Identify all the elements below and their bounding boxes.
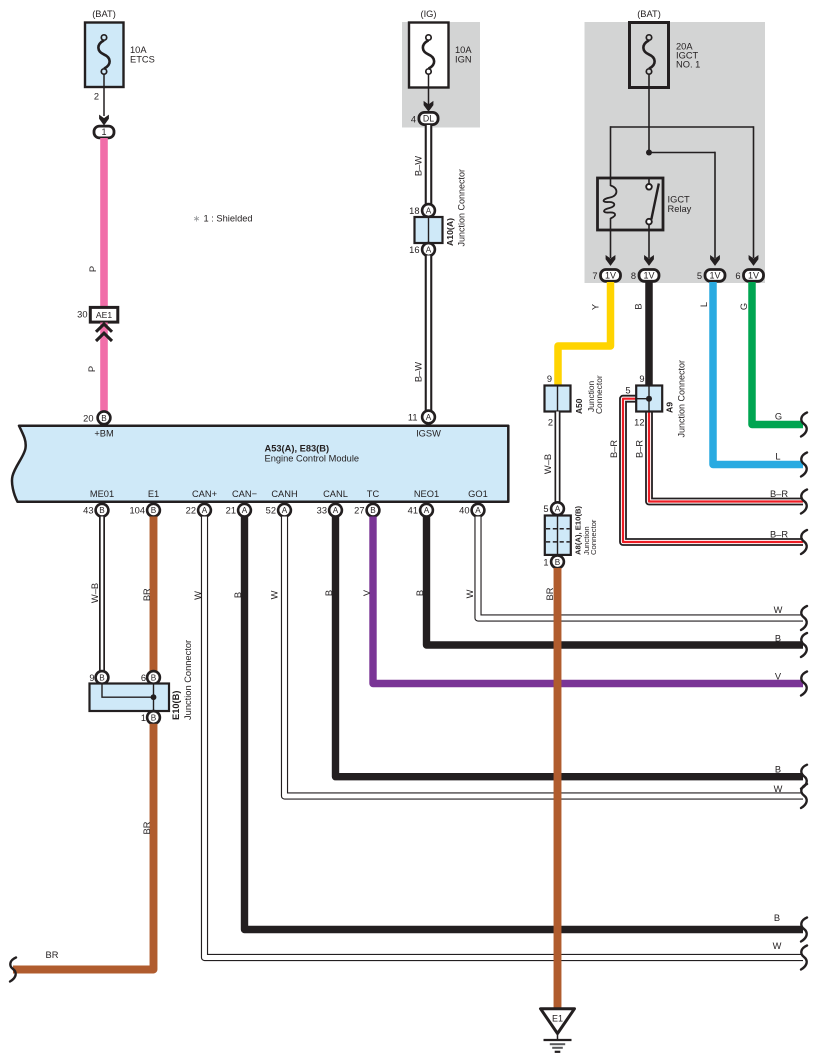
svg-text:6: 6 bbox=[141, 673, 146, 683]
connector pin 5 (1V) bbox=[697, 270, 725, 282]
wire color label B-R (right) bbox=[635, 440, 645, 458]
fuse ETCS pin 2 bbox=[94, 74, 104, 116]
svg-text:52: 52 bbox=[266, 506, 276, 516]
junction connector A50 pin 2 bbox=[548, 417, 553, 427]
svg-text:∗: ∗ bbox=[193, 213, 201, 223]
ECM pin 40(A) GO1 bbox=[459, 489, 488, 517]
svg-text:A: A bbox=[475, 506, 481, 515]
wire V: TC to right edge bbox=[373, 517, 803, 684]
wire label V (edge, TC) bbox=[775, 671, 782, 681]
node 1 ellipse bbox=[94, 126, 114, 138]
arrows into 1V pins bbox=[606, 255, 759, 266]
svg-text:B: B bbox=[775, 633, 781, 643]
svg-text:L: L bbox=[699, 302, 709, 307]
svg-text:(BAT): (BAT) bbox=[637, 9, 661, 19]
wire: node to pin 5 bbox=[649, 152, 715, 258]
svg-text:1V: 1V bbox=[643, 271, 654, 281]
svg-text:B: B bbox=[99, 674, 105, 683]
wire B: CAN- to right edge bbox=[245, 517, 804, 930]
svg-text:B–R: B–R bbox=[635, 440, 645, 458]
junction connector A9 labels bbox=[664, 360, 686, 438]
wire color label B (CAN-) bbox=[233, 592, 243, 598]
svg-text:A9: A9 bbox=[664, 402, 674, 413]
svg-text:2: 2 bbox=[548, 417, 553, 427]
junction connector A9 pin 5 bbox=[625, 386, 630, 396]
svg-text:E1: E1 bbox=[552, 1013, 563, 1023]
wire BR: E10 pin 1 to left edge bbox=[13, 724, 154, 970]
wire: fuse to junction node bbox=[648, 74, 650, 152]
wire break symbol B (CAN-) bbox=[801, 918, 807, 942]
ground E1 symbol bbox=[541, 1009, 575, 1052]
svg-text:Junction Connector: Junction Connector bbox=[183, 640, 193, 720]
wire label B-R (edge upper) bbox=[770, 489, 788, 499]
svg-text:V: V bbox=[362, 589, 372, 596]
wire color label W (GO1) bbox=[465, 589, 475, 598]
svg-text:BR: BR bbox=[46, 950, 59, 960]
svg-text:4: 4 bbox=[411, 114, 416, 124]
svg-text:Y: Y bbox=[591, 304, 601, 310]
junction node dot bbox=[646, 150, 652, 156]
svg-text:A: A bbox=[555, 505, 561, 514]
wire color label Y bbox=[591, 304, 601, 310]
svg-text:40: 40 bbox=[459, 506, 469, 516]
svg-text:A: A bbox=[426, 207, 432, 216]
svg-text:W: W bbox=[193, 591, 203, 600]
wire B black: pin 8 to A9 pin 9 bbox=[645, 282, 653, 386]
wire P pink: node 1 to connector AE1 bbox=[100, 138, 108, 308]
junction connector E10 pin 6(B) bbox=[141, 671, 160, 684]
junction connector A8 pin 1(B) bbox=[543, 555, 564, 568]
svg-text:+BM: +BM bbox=[94, 429, 113, 439]
wire color label G (vertical) bbox=[739, 303, 749, 310]
wire color label W (CANH) bbox=[270, 590, 280, 599]
svg-text:W: W bbox=[270, 590, 280, 599]
svg-text:G: G bbox=[739, 303, 749, 310]
ECM pin 33(A) CANL bbox=[317, 489, 348, 517]
ECM pin 52(A) CANH bbox=[266, 489, 298, 517]
svg-text:A53(A), E83(B): A53(A), E83(B) bbox=[265, 444, 330, 454]
wire W: CAN+ to right edge bbox=[205, 517, 804, 958]
ECM pin 104(B) E1 bbox=[129, 489, 159, 517]
svg-text:B: B bbox=[233, 592, 243, 598]
wire color label BR (vertical lower) bbox=[142, 821, 152, 834]
svg-text:CAN+: CAN+ bbox=[192, 489, 217, 499]
connector pin 8 (1V) bbox=[631, 270, 659, 282]
wire L blue: pin 5 to right edge bbox=[713, 282, 803, 465]
svg-text:V: V bbox=[775, 671, 782, 681]
wire color label B-W (upper) bbox=[414, 156, 424, 176]
relay output leads bbox=[611, 230, 650, 258]
svg-text:5: 5 bbox=[543, 504, 548, 514]
svg-text:W–B: W–B bbox=[543, 454, 553, 474]
fuse IGN pin 4 lead bbox=[428, 74, 430, 106]
svg-text:BR: BR bbox=[545, 587, 555, 600]
ECM pin 21(A) CAN− bbox=[226, 489, 257, 517]
svg-text:ETCS: ETCS bbox=[130, 55, 155, 65]
svg-text:(BAT): (BAT) bbox=[92, 9, 116, 19]
wire W: CANH to right edge bbox=[285, 517, 804, 797]
note *1 Shielded bbox=[193, 213, 253, 223]
wire B-R: A9 pin 12 to right edge (upper) bbox=[649, 412, 803, 502]
fuse ETCS 10A (BAT) bbox=[85, 9, 155, 87]
svg-text:A: A bbox=[202, 506, 208, 515]
svg-text:IGSW: IGSW bbox=[416, 429, 441, 439]
svg-text:NEO1: NEO1 bbox=[414, 489, 439, 499]
svg-text:1V: 1V bbox=[709, 271, 720, 281]
svg-text:W: W bbox=[465, 589, 475, 598]
svg-text:B: B bbox=[151, 674, 157, 683]
svg-text:6: 6 bbox=[735, 271, 740, 281]
svg-text:AE1: AE1 bbox=[96, 310, 112, 320]
wire color label B-W (lower) bbox=[414, 362, 424, 382]
fuse IGCT NO.1 20A (BAT) bbox=[630, 9, 701, 88]
svg-text:Connector: Connector bbox=[589, 519, 598, 555]
svg-text:27: 27 bbox=[354, 506, 364, 516]
svg-text:B–R: B–R bbox=[770, 489, 788, 499]
svg-text:1: 1 bbox=[543, 557, 548, 567]
junction connector A8 pin 5(A) bbox=[543, 502, 564, 515]
ECM A53(A), E83(B) Engine Control Module box bbox=[12, 426, 508, 502]
relay coil bbox=[604, 178, 617, 230]
wire label W (edge, CANH) bbox=[774, 784, 783, 794]
svg-text:G: G bbox=[775, 411, 782, 421]
svg-text:P: P bbox=[87, 366, 97, 372]
wire label W (edge, CAN+) bbox=[773, 941, 782, 951]
svg-text:1: 1 bbox=[141, 713, 146, 723]
junction connector E10 pin 9(B) bbox=[89, 671, 108, 684]
svg-text:B: B bbox=[774, 913, 780, 923]
wire break symbol W (CAN+) bbox=[801, 946, 807, 970]
IGCT relay box bbox=[598, 178, 692, 230]
svg-text:W: W bbox=[774, 784, 783, 794]
svg-text:(IG): (IG) bbox=[420, 9, 436, 19]
junction connector A50 labels bbox=[574, 375, 604, 414]
wire break symbol W (CANH) bbox=[801, 784, 807, 808]
svg-text:B: B bbox=[555, 558, 561, 567]
svg-text:P: P bbox=[88, 266, 98, 272]
wire label L (right edge) bbox=[775, 451, 780, 461]
node 4 DL ellipse bbox=[411, 112, 438, 124]
wire label W (edge, GO1) bbox=[774, 605, 783, 615]
svg-text:B: B bbox=[101, 414, 107, 423]
junction connector E10 pin 1(B) bbox=[141, 711, 160, 724]
svg-text:W: W bbox=[774, 605, 783, 615]
svg-text:22: 22 bbox=[186, 506, 196, 516]
svg-text:11: 11 bbox=[408, 413, 418, 423]
wire break symbol G bbox=[801, 413, 807, 437]
svg-text:8: 8 bbox=[631, 271, 636, 281]
svg-text:CANL: CANL bbox=[323, 489, 348, 499]
svg-text:DL: DL bbox=[423, 114, 434, 124]
connector continuation chevrons bbox=[96, 324, 112, 341]
svg-text:ME01: ME01 bbox=[90, 489, 114, 499]
wire color label BR (A8) bbox=[545, 587, 555, 600]
arrow into node 1 bbox=[99, 115, 109, 126]
svg-text:16: 16 bbox=[409, 245, 419, 255]
wire B-W: A10 pin 16 to ECM pin 11 bbox=[425, 256, 433, 412]
svg-text:GO1: GO1 bbox=[468, 489, 488, 499]
arrow into node DL bbox=[424, 101, 434, 112]
ECM pin 43(B) ME01 bbox=[83, 489, 114, 517]
svg-text:18: 18 bbox=[409, 206, 419, 216]
wire W: GO1 to right edge bbox=[478, 517, 803, 619]
svg-text:CAN−: CAN− bbox=[232, 489, 257, 499]
fuse IGN 10A (IG) bbox=[409, 9, 472, 88]
svg-text:E1: E1 bbox=[148, 489, 159, 499]
svg-text:B: B bbox=[775, 765, 781, 775]
wire break symbol V (TC) bbox=[801, 672, 807, 696]
svg-text:41: 41 bbox=[408, 506, 418, 516]
svg-text:B–W: B–W bbox=[414, 362, 424, 382]
svg-text:A10(A): A10(A) bbox=[445, 218, 455, 246]
junction connector A8(A), E10(B) box bbox=[545, 516, 571, 555]
svg-text:BR: BR bbox=[142, 588, 152, 601]
wire label B-R (edge lower) bbox=[770, 529, 788, 539]
junction connector A10(A) pin 18 bbox=[409, 204, 435, 217]
wire break symbol BR (left edge) bbox=[10, 958, 16, 982]
svg-text:1: 1 bbox=[101, 127, 106, 137]
wire W-B: A50 to A8 pin 5 bbox=[555, 412, 561, 503]
svg-text:Connector: Connector bbox=[594, 375, 604, 414]
svg-text:Junction Connector: Junction Connector bbox=[677, 360, 687, 438]
junction connector A9 box bbox=[636, 386, 662, 412]
svg-text:CANH: CANH bbox=[271, 489, 297, 499]
ECM pin 22(A) CAN+ bbox=[186, 489, 217, 517]
wire P pink: AE1 to ECM pin 20 bbox=[100, 323, 108, 413]
svg-text:A50: A50 bbox=[574, 398, 584, 414]
wire color label BR (E1) bbox=[142, 588, 152, 601]
svg-text:A: A bbox=[242, 506, 248, 515]
wire break symbol B-R lower bbox=[801, 530, 807, 554]
svg-text:A: A bbox=[282, 506, 288, 515]
wire color label P (lower) bbox=[87, 366, 97, 372]
wire BR: A8 pin 1 to ground E1 bbox=[554, 568, 562, 1008]
junction connector A10(A) pin 16 bbox=[409, 243, 435, 256]
svg-text:A: A bbox=[426, 413, 432, 422]
wire Y yellow: pin 7 to A50 pin 9 bbox=[558, 282, 611, 386]
svg-text:43: 43 bbox=[83, 506, 93, 516]
wire color label V (TC) bbox=[362, 589, 372, 596]
svg-text:L: L bbox=[775, 451, 780, 461]
gray panel behind BAT fuse and IGCT relay bbox=[585, 22, 766, 283]
svg-text:5: 5 bbox=[697, 271, 702, 281]
svg-text:33: 33 bbox=[317, 506, 327, 516]
svg-text:B–R: B–R bbox=[609, 440, 619, 458]
svg-text:B: B bbox=[324, 590, 334, 596]
wire G green: pin 6 to right edge bbox=[752, 282, 803, 425]
svg-text:A: A bbox=[424, 506, 430, 515]
svg-text:B–R: B–R bbox=[770, 529, 788, 539]
wire color label B (CANL) bbox=[324, 590, 334, 596]
svg-text:12: 12 bbox=[634, 417, 644, 427]
junction connector A50 box bbox=[545, 386, 571, 412]
wire label B (edge, CANL) bbox=[775, 765, 781, 775]
ECM pin 11(A) IGSW bbox=[408, 411, 441, 439]
wire color label P (upper) bbox=[88, 266, 98, 272]
wire label B (edge, CAN-) bbox=[774, 913, 780, 923]
svg-text:NO. 1: NO. 1 bbox=[676, 60, 700, 70]
wire color label B-R (left) bbox=[609, 440, 619, 458]
svg-text:9: 9 bbox=[547, 374, 552, 384]
svg-text:B: B bbox=[99, 506, 105, 515]
ECM pin 27(B) TC bbox=[354, 489, 379, 517]
junction connector A50 pin 9 bbox=[547, 374, 552, 384]
connector pin 7 (1V) bbox=[592, 270, 620, 282]
wire color label L (vertical) bbox=[699, 302, 709, 307]
junction connector E10(B) labels bbox=[171, 640, 193, 720]
svg-text:B: B bbox=[370, 506, 376, 515]
svg-text:W: W bbox=[773, 941, 782, 951]
svg-text:W–B: W–B bbox=[90, 583, 100, 603]
wire color label W-B (right) bbox=[543, 454, 553, 474]
svg-text:104: 104 bbox=[129, 506, 145, 516]
junction connector E10(B) box bbox=[90, 684, 170, 712]
ECM pin 20(B) +BM bbox=[83, 411, 114, 438]
junction connector A10(A) box bbox=[415, 217, 443, 243]
wire BR: E1 to E10 pin 6 bbox=[150, 517, 158, 672]
wire label B (edge, NEO1) bbox=[775, 633, 781, 643]
svg-text:20: 20 bbox=[83, 413, 93, 423]
wire color label W (CAN+) bbox=[193, 591, 203, 600]
wire break symbol W (GO1) bbox=[801, 606, 807, 630]
wire B-R: A9 pin 5 to right edge (lower) bbox=[623, 399, 803, 542]
svg-text:TC: TC bbox=[367, 489, 380, 499]
svg-text:B: B bbox=[151, 506, 157, 515]
wire break symbol L bbox=[801, 453, 807, 477]
svg-text:IGN: IGN bbox=[455, 55, 472, 65]
svg-text:Engine Control Module: Engine Control Module bbox=[265, 454, 360, 464]
junction connector A9 pin 9 bbox=[639, 374, 644, 384]
wire B: CANL to right edge bbox=[336, 517, 804, 777]
svg-text:7: 7 bbox=[592, 271, 597, 281]
connector pin 6 (1V) bbox=[735, 270, 763, 282]
ECM pin 41(A) NEO1 bbox=[408, 489, 440, 517]
relay switch contact bbox=[646, 178, 659, 230]
wire W-B: ME01 to E10 pin 9 bbox=[99, 517, 105, 672]
gray panel behind IG fuse bbox=[402, 22, 480, 128]
svg-text:Junction Connector: Junction Connector bbox=[456, 169, 466, 247]
svg-text:Relay: Relay bbox=[668, 204, 692, 214]
junction connector A8 labels bbox=[574, 505, 599, 555]
junction connector A9 pin 12 bbox=[634, 417, 644, 427]
connector AE1 pin 30 bbox=[77, 307, 118, 322]
wire: horizontal feed to relay coil and pin 6 bbox=[611, 126, 754, 258]
svg-text:BR: BR bbox=[142, 821, 152, 834]
svg-text:1V: 1V bbox=[748, 271, 759, 281]
junction connector A10(A) labels bbox=[445, 169, 467, 247]
svg-text:IGCT: IGCT bbox=[668, 195, 691, 205]
svg-text:1V: 1V bbox=[605, 271, 616, 281]
wire break symbol B (NEO1) bbox=[801, 633, 807, 657]
svg-text:B–W: B–W bbox=[414, 156, 424, 176]
svg-text:5: 5 bbox=[625, 386, 630, 396]
wire color label B (NEO1) bbox=[415, 590, 425, 596]
wire B-W: DL to junction connector A10 pin 18 bbox=[425, 125, 433, 205]
svg-text:9: 9 bbox=[639, 374, 644, 384]
svg-text:B: B bbox=[415, 590, 425, 596]
svg-text:B: B bbox=[151, 714, 157, 723]
wire B: NEO1 to right edge bbox=[427, 517, 804, 646]
wire color label B (relay) bbox=[634, 303, 644, 309]
svg-text:A: A bbox=[426, 246, 432, 255]
svg-text:B: B bbox=[634, 303, 644, 309]
svg-text:A: A bbox=[333, 506, 339, 515]
svg-text:9: 9 bbox=[89, 673, 94, 683]
wire break symbol B (CANL) bbox=[801, 765, 807, 789]
svg-text:2: 2 bbox=[94, 92, 99, 102]
svg-text:21: 21 bbox=[226, 506, 236, 516]
svg-text:E10(B): E10(B) bbox=[171, 691, 181, 720]
svg-text:30: 30 bbox=[77, 310, 87, 320]
svg-text:1 : Shielded: 1 : Shielded bbox=[204, 213, 253, 223]
wire label BR (left edge) bbox=[46, 950, 59, 960]
wire break symbol B-R upper bbox=[801, 490, 807, 514]
wire color label W-B (ME01) bbox=[90, 583, 100, 603]
wire label G (right edge) bbox=[775, 411, 782, 421]
